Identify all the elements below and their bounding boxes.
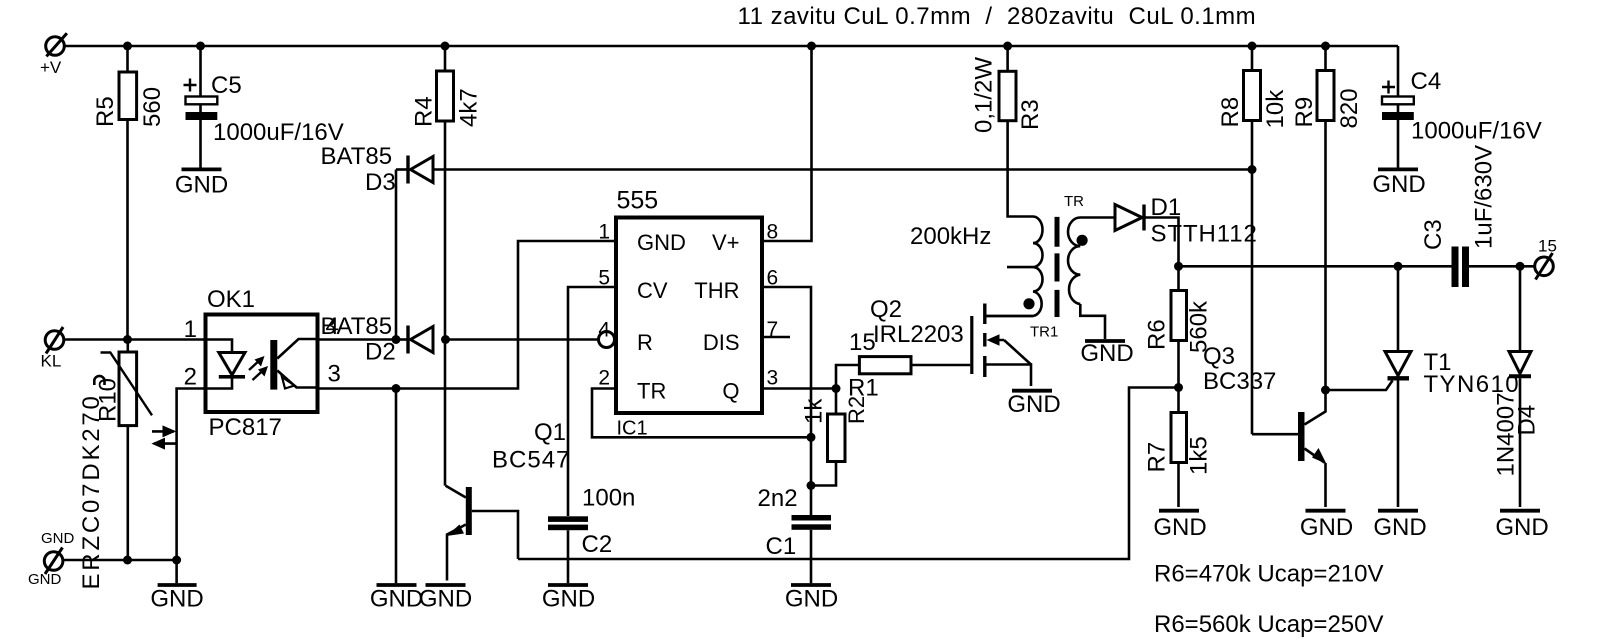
terminal KL <box>41 327 64 371</box>
svg-text:GND: GND <box>1372 171 1425 198</box>
svg-text:THR: THR <box>694 278 739 303</box>
svg-text:TR: TR <box>1064 193 1084 210</box>
svg-text:10k: 10k <box>1262 89 1289 129</box>
wire KL row <box>64 338 206 341</box>
transistor Q1 BC547 <box>446 419 571 581</box>
node dot R2/C1 <box>807 481 816 490</box>
wire OK1 pin3 / 555 GND chain <box>318 241 617 389</box>
resistor R9 820 <box>1291 46 1363 390</box>
svg-text:D3: D3 <box>365 169 396 196</box>
node dot R8/feedback <box>1248 165 1257 174</box>
svg-text:1k5: 1k5 <box>1186 436 1213 475</box>
node dot Q/R1/R2 <box>832 384 841 393</box>
wire D3 anode feedback row <box>433 168 1252 171</box>
wire 555 pin8 V+ riser <box>764 46 812 241</box>
svg-text:11 zavitu CuL 0.7mm / 280zav: 11 zavitu CuL 0.7mm / 280zavitu CuL 0.1m… <box>738 3 1257 30</box>
svg-text:1000uF/16V: 1000uF/16V <box>213 119 344 146</box>
svg-text:GND: GND <box>28 571 62 588</box>
ground GND (row) <box>150 585 203 613</box>
ground GND (D4) <box>1495 511 1548 541</box>
svg-text:PC817: PC817 <box>209 414 282 441</box>
svg-text:1: 1 <box>598 221 610 244</box>
svg-text:C5: C5 <box>211 72 242 99</box>
wire GND stub (OK1) <box>395 389 398 584</box>
svg-text:Q2: Q2 <box>870 296 902 323</box>
svg-text:D1: D1 <box>1151 194 1182 221</box>
ground GND (Q1) <box>419 585 472 613</box>
svg-text:R4: R4 <box>411 96 438 127</box>
svg-text:R5: R5 <box>92 96 119 127</box>
wire D3-D2 cathode link <box>395 170 398 340</box>
resistor R2 1k <box>800 389 869 486</box>
node dot KL/R5 <box>123 335 132 344</box>
svg-text:R6: R6 <box>1144 319 1171 350</box>
svg-text:2: 2 <box>598 367 610 390</box>
svg-text:BC337: BC337 <box>1203 368 1276 395</box>
ground GND (C5) <box>175 169 228 198</box>
svg-text:KL: KL <box>41 352 62 371</box>
wire +V rail <box>64 45 1398 48</box>
wire feedback bottom row <box>518 388 1179 560</box>
capacitor C3 1uF/630V <box>1420 145 1498 287</box>
svg-text:C2: C2 <box>582 531 613 558</box>
svg-text:GND: GND <box>1373 514 1426 541</box>
diode D2 BAT85 <box>321 313 451 366</box>
svg-text:2: 2 <box>184 364 197 391</box>
svg-text:C1: C1 <box>766 533 797 560</box>
wire GND stub (row) <box>175 560 178 583</box>
svg-text:1000uF/16V: 1000uF/16V <box>1411 118 1542 145</box>
svg-text:CV: CV <box>637 278 668 303</box>
svg-text:R6=560k Ucap=250V: R6=560k Ucap=250V <box>1154 611 1384 638</box>
ground GND (R7) <box>1153 511 1206 541</box>
svg-text:GND: GND <box>370 586 423 613</box>
svg-text:GND: GND <box>542 586 595 613</box>
terminal +V <box>40 33 67 77</box>
varistor R10 <box>78 340 152 590</box>
svg-text:GND: GND <box>1495 514 1548 541</box>
wire output row <box>1179 265 1535 268</box>
svg-text:R3: R3 <box>1017 99 1044 130</box>
svg-text:OK1: OK1 <box>207 286 255 313</box>
svg-text:GND: GND <box>637 230 686 255</box>
svg-text:R8: R8 <box>1217 97 1244 128</box>
svg-text:Q3: Q3 <box>1203 343 1235 370</box>
node dot pin3/GND <box>392 384 401 393</box>
svg-text:STTH112: STTH112 <box>1151 221 1258 248</box>
svg-text:D2: D2 <box>365 339 396 366</box>
svg-text:DIS: DIS <box>703 330 740 355</box>
svg-text:820: 820 <box>1336 88 1363 128</box>
ground GND (TR secondary) <box>1080 340 1133 367</box>
transistor Q2 IRL2203 <box>870 296 1033 386</box>
transformer TR secondary <box>1030 193 1115 341</box>
svg-text:GND: GND <box>150 586 203 613</box>
resistor R8 10k <box>1217 46 1289 434</box>
svg-text:R: R <box>637 330 653 355</box>
svg-text:BC547: BC547 <box>492 447 570 474</box>
svg-text:TR: TR <box>637 379 666 404</box>
node dots GND row <box>123 556 181 565</box>
svg-text:R9: R9 <box>1291 97 1318 128</box>
transformer TR primary <box>985 121 1043 316</box>
diode D4 1N4007 <box>1493 266 1541 507</box>
node dot C3/D4 <box>1516 262 1525 271</box>
transistor Q3 BC337 <box>1203 343 1327 507</box>
svg-text:GND: GND <box>1153 514 1206 541</box>
svg-text:GND: GND <box>1007 391 1060 418</box>
svg-text:0,1/2W: 0,1/2W <box>971 57 998 133</box>
svg-text:C3: C3 <box>1420 219 1447 250</box>
diode D3 BAT85 <box>321 143 434 196</box>
capacitor C2 100n <box>548 485 635 584</box>
svg-text:1uF/630V: 1uF/630V <box>1471 145 1498 249</box>
wire OK1 pin2 return <box>177 389 206 561</box>
svg-text:GND: GND <box>41 530 75 547</box>
optocoupler OK1 PC817 <box>184 286 341 441</box>
resistor R1 15 <box>836 329 970 402</box>
svg-text:1: 1 <box>184 316 197 343</box>
wire OK1 pin4 to D2 <box>318 338 397 341</box>
terminal GND (bottom left) <box>28 530 75 588</box>
svg-text:560: 560 <box>139 87 166 127</box>
wire D2 anode to 555 reset <box>446 338 599 341</box>
wire 555 pin5 to C2 <box>568 287 616 516</box>
svg-text:R6=470k Ucap=210V: R6=470k Ucap=210V <box>1154 561 1384 588</box>
wire 555 pin6 THR <box>764 287 812 437</box>
svg-text:V+: V+ <box>712 230 740 255</box>
svg-text:3: 3 <box>767 367 779 390</box>
node dot TR/THR <box>807 433 816 442</box>
svg-text:100n: 100n <box>582 485 635 512</box>
ground GND (Q3) <box>1300 511 1353 541</box>
svg-text:15: 15 <box>849 329 876 356</box>
svg-text:200kHz: 200kHz <box>910 223 991 250</box>
transformer core <box>1055 217 1060 317</box>
ground GND (C4) <box>1372 169 1425 198</box>
opto arrows (pin2 line) <box>151 425 176 449</box>
wire bottom-left GND row <box>63 559 177 562</box>
svg-text:1N4007: 1N4007 <box>1493 392 1520 476</box>
capacitor C1 2n2 <box>758 437 832 583</box>
svg-text:GND: GND <box>1300 514 1353 541</box>
svg-text:Q: Q <box>722 379 739 404</box>
resistor R3 0,1/2W <box>971 46 1045 133</box>
svg-text:1k: 1k <box>800 398 827 424</box>
svg-text:Q1: Q1 <box>534 419 566 446</box>
svg-text:4k7: 4k7 <box>456 88 483 127</box>
svg-text:R1: R1 <box>848 375 879 402</box>
resistor R5 <box>92 46 166 340</box>
svg-text:+V: +V <box>40 58 62 77</box>
svg-text:4: 4 <box>326 313 339 340</box>
resistor R6 560k <box>1144 266 1213 387</box>
svg-text:2n2: 2n2 <box>758 485 798 512</box>
ground GND (C1) <box>785 585 838 613</box>
thyristor T1 TYN610 <box>1326 266 1520 507</box>
resistor R4 <box>411 46 483 486</box>
svg-text:15: 15 <box>1538 237 1557 256</box>
svg-text:TR1: TR1 <box>1030 324 1058 341</box>
op-amp/timer IC1 555 <box>598 187 778 440</box>
node dot R6/R7 <box>1174 383 1183 392</box>
terminal output 15 <box>1535 237 1557 280</box>
ground GND (T1) <box>1373 511 1426 541</box>
ground GND (Q2 source) <box>1007 391 1060 418</box>
diode D1 STTH112 <box>1115 194 1258 266</box>
wire 555 pin7 DIS stub <box>764 336 791 339</box>
resistor R7 1k5 <box>1144 388 1213 508</box>
node dot R9/Q3/T1gate <box>1321 386 1330 395</box>
svg-text:C4: C4 <box>1411 68 1442 95</box>
svg-text:IRL2203: IRL2203 <box>873 321 964 348</box>
ground GND (OK1) <box>370 585 423 613</box>
ground GND (C2) <box>542 585 595 613</box>
svg-text:BAT85: BAT85 <box>321 143 393 170</box>
svg-text:3: 3 <box>328 361 341 388</box>
svg-text:GND: GND <box>1080 340 1133 367</box>
svg-text:R7: R7 <box>1144 442 1171 473</box>
svg-text:GND: GND <box>785 586 838 613</box>
capacitor C5 <box>184 46 344 168</box>
svg-text:555: 555 <box>617 187 659 215</box>
capacitor C4 1000uF/16V <box>1382 46 1542 168</box>
node dot D1/R6/output <box>1174 262 1183 271</box>
svg-text:GND: GND <box>419 586 472 613</box>
node dot T1 anode <box>1394 262 1403 271</box>
wire 555 pin3 Q out <box>764 387 837 390</box>
node dots on +V rail <box>123 42 1330 51</box>
wire 555 pin2 TR <box>592 389 811 438</box>
svg-text:GND: GND <box>175 172 228 199</box>
